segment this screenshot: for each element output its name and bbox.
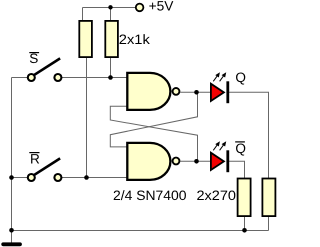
svg-text:S: S [29,51,38,66]
svg-text:R: R [30,152,40,167]
svg-text:2x270: 2x270 [197,188,237,203]
svg-text:Q: Q [235,141,246,156]
svg-text:2x1k: 2x1k [119,32,150,47]
svg-text:+5V: +5V [149,0,174,14]
svg-text:2/4 SN7400: 2/4 SN7400 [113,188,187,203]
svg-text:Q: Q [235,70,246,85]
